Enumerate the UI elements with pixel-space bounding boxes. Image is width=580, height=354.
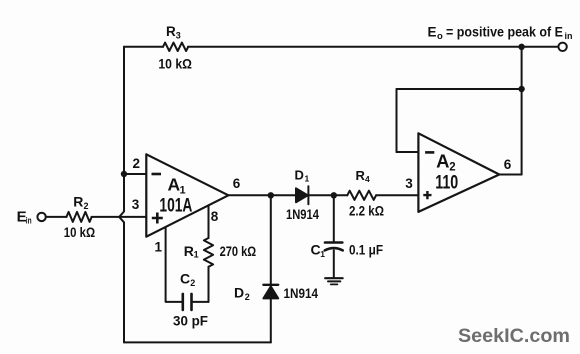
wire A2 feedback top [397, 88, 522, 90]
svg-text:C: C [311, 242, 321, 258]
input terminal Ein [37, 213, 45, 221]
svg-text:D: D [234, 285, 244, 301]
node junction pin2 [121, 171, 127, 177]
svg-text:1N914: 1N914 [284, 286, 319, 301]
svg-text:R: R [356, 168, 366, 183]
wire D2 vertical bottom [270, 298, 272, 342]
node junction C1 branch [331, 192, 337, 198]
svg-text:1: 1 [155, 240, 163, 255]
svg-text:10 kΩ: 10 kΩ [158, 56, 192, 72]
diode D1 [296, 188, 308, 202]
wire top-left horizontal to R3 [124, 46, 163, 48]
svg-text:1: 1 [305, 174, 310, 184]
svg-text:R: R [184, 243, 194, 259]
wire A2 feedback left vertical [396, 89, 398, 152]
svg-text:3: 3 [132, 197, 140, 212]
wire D2 vertical top [270, 195, 272, 284]
wire bottom feedback [124, 341, 271, 343]
svg-text:C: C [180, 271, 190, 287]
svg-text:6: 6 [504, 157, 512, 172]
svg-text:= positive peak of E: = positive peak of E [446, 25, 563, 40]
resistor R2 [67, 212, 92, 222]
svg-text:R: R [73, 194, 83, 210]
capacitor C2 [182, 294, 185, 310]
svg-text:10 kΩ: 10 kΩ [64, 224, 95, 240]
svg-text:0.1 μF: 0.1 μF [349, 242, 383, 258]
wire C2 to R1 [192, 301, 209, 303]
wire pin2 of A1 [124, 173, 146, 175]
op-amp A1 plus sign [152, 213, 163, 224]
svg-text:270 kΩ: 270 kΩ [220, 243, 257, 259]
wire A1 output [228, 194, 296, 196]
svg-text:2: 2 [133, 156, 141, 171]
wire R1 bottom [208, 267, 210, 302]
svg-text:3: 3 [405, 176, 413, 191]
svg-text:in: in [565, 31, 573, 41]
ground [325, 277, 342, 279]
node junction A2 feedback [518, 86, 524, 92]
resistor R4 [347, 191, 376, 200]
svg-text:1: 1 [194, 250, 199, 260]
svg-text:3: 3 [176, 31, 181, 41]
wire top rail to output terminal [188, 46, 559, 48]
wire R2 to pin3 of A1 [92, 216, 147, 218]
svg-text:2.2 kΩ: 2.2 kΩ [349, 203, 384, 219]
node junction D2 branch [268, 192, 274, 198]
op-amp A2 minus sign [425, 151, 434, 154]
svg-text:6: 6 [233, 176, 241, 191]
diode D2 [263, 284, 278, 286]
wire A2 output [499, 174, 521, 176]
svg-text:2: 2 [245, 292, 250, 302]
resistor R1 [204, 238, 213, 267]
wire pin8 of A1 [208, 205, 210, 238]
svg-text:2: 2 [84, 201, 89, 211]
node junction top rail [518, 44, 524, 50]
wire right vertical from top rail to A2 output [521, 47, 523, 175]
svg-text:1: 1 [320, 249, 325, 259]
svg-text:SeekIC.com: SeekIC.com [458, 325, 570, 347]
op-amp A1 [146, 154, 228, 236]
svg-text:2: 2 [449, 162, 455, 174]
svg-text:4: 4 [365, 174, 370, 184]
op-amp A1 minus sign [152, 173, 162, 176]
svg-text:D: D [295, 168, 304, 183]
svg-text:R: R [166, 24, 176, 39]
svg-text:A: A [436, 151, 449, 172]
svg-text:8: 8 [211, 209, 219, 224]
wire D1 to node [308, 194, 347, 196]
capacitor C1 [325, 241, 342, 244]
svg-text:1N914: 1N914 [286, 207, 319, 222]
wire R4 to A2 pin3 [376, 194, 418, 196]
wire C1 vertical top [333, 195, 335, 242]
svg-text:E: E [428, 25, 437, 40]
svg-text:30 pF: 30 pF [173, 313, 208, 329]
wire left feedback vertical with crossover hop [119, 47, 124, 343]
svg-text:2: 2 [190, 278, 195, 288]
op-amp A2 plus sign [423, 191, 431, 199]
wire pin1 of A1 [166, 227, 183, 302]
svg-text:101A: 101A [159, 195, 192, 217]
output terminal [558, 43, 566, 51]
wire A2 inverting input [397, 151, 419, 153]
svg-text:110: 110 [435, 173, 458, 194]
op-amp A2 [418, 133, 499, 212]
wire C1 to ground [333, 250, 335, 277]
resistor R3 [163, 43, 188, 51]
svg-text:in: in [26, 216, 32, 226]
svg-text:o: o [437, 31, 443, 42]
wire Ein to R2 [46, 216, 67, 218]
